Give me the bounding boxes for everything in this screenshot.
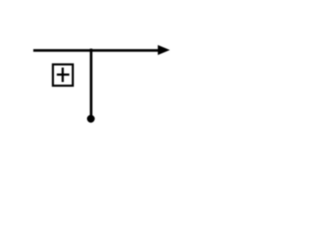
polarity marker: plus sign horizontal bar [57,73,70,75]
polarity marker: plus sign vertical bar [62,68,64,82]
wire: vertical drop from junction [90,49,93,117]
wire: horizontal arrow shaft [33,49,160,52]
arrowhead [158,45,170,55]
node: filled dot at bottom [87,115,95,123]
polarity marker: square box [53,64,73,85]
